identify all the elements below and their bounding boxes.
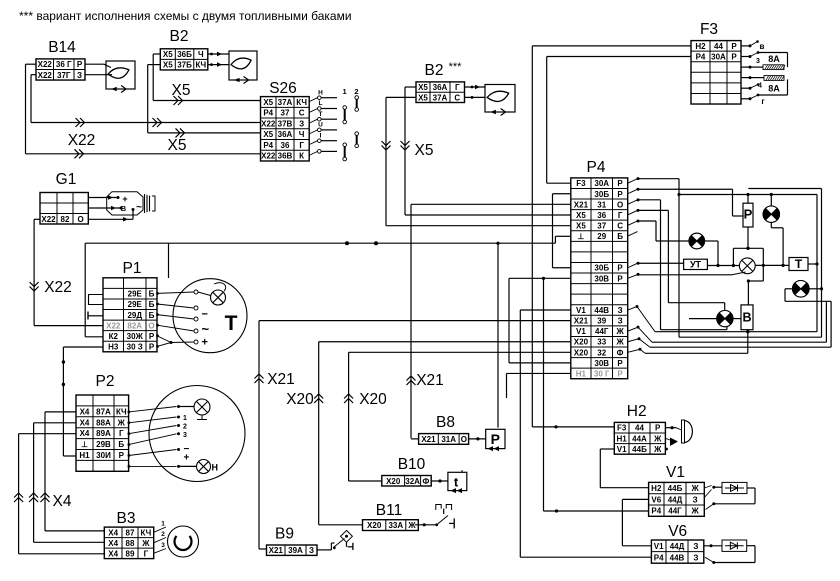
svg-text:30И: 30И [96,451,111,460]
svg-text:31А: 31А [441,435,456,444]
svg-text:44В: 44В [670,553,685,562]
svg-text:В2: В2 [425,62,444,79]
svg-text:30А: 30А [594,179,609,188]
svg-text:Х21: Х21 [421,435,436,444]
svg-text:F3: F3 [700,21,718,38]
svg-text:Р: Р [617,264,623,273]
svg-text:29Д: 29Д [127,311,142,320]
svg-text:1: 1 [161,521,165,528]
svg-text:F3: F3 [617,424,627,433]
svg-text:t: t [454,475,459,490]
svg-text:88: 88 [126,539,135,548]
svg-text:Х5: Х5 [576,221,586,230]
svg-text:Н: Н [212,463,219,473]
svg-text:⊥: ⊥ [577,232,584,241]
svg-text:44Б: 44Б [632,445,647,454]
svg-text:З: З [693,542,698,551]
svg-text:О: О [78,215,84,224]
svg-text:29: 29 [597,232,606,241]
svg-text:В: В [742,311,751,325]
svg-text:44Д: 44Д [670,542,685,551]
svg-text:КЧ: КЧ [195,61,206,70]
svg-text:Р: Р [491,431,500,447]
svg-text:Х21: Х21 [269,546,284,555]
svg-text:Х22: Х22 [38,71,53,80]
svg-text:S26: S26 [269,80,297,97]
svg-text:Х20: Х20 [359,391,387,408]
svg-text:V1: V1 [654,542,664,551]
svg-text:Г: Г [144,549,149,558]
svg-text:3: 3 [161,542,165,549]
svg-text:Р2: Р2 [96,373,115,390]
svg-text:***: *** [449,61,463,73]
svg-text:КЧ: КЧ [140,528,151,537]
svg-text:V1: V1 [576,327,586,336]
svg-text:О: О [148,321,154,330]
svg-text:Р: Р [119,451,125,460]
svg-text:Х22: Х22 [106,321,121,330]
svg-text:Х20: Х20 [574,348,589,357]
svg-text:−: − [202,309,208,321]
svg-text:Б: Б [149,300,155,309]
svg-text:L: L [319,100,323,107]
svg-text:Т: Т [319,111,323,118]
svg-text:36В: 36В [278,152,293,161]
svg-text:Х4: Х4 [80,429,90,438]
svg-text:1: 1 [183,415,187,422]
svg-text:36: 36 [597,211,606,220]
svg-text:Р1: Р1 [123,260,142,277]
svg-text:З: З [618,306,623,315]
svg-text:V6: V6 [668,523,687,540]
svg-text:Р: Р [617,359,623,368]
svg-text:Ф: Ф [617,348,624,357]
svg-text:О: О [461,435,467,444]
svg-text:Х22: Х22 [38,60,53,69]
svg-text:Р4: Р4 [654,553,664,562]
svg-text:F3: F3 [576,179,586,188]
svg-text:С: С [299,109,305,118]
svg-text:Х4: Х4 [108,539,118,548]
svg-text:+: + [184,453,190,464]
svg-text:Т: Т [225,312,238,335]
svg-text:Х21: Х21 [416,372,444,389]
svg-text:Н2: Н2 [651,484,662,493]
svg-text:44Г: 44Г [668,507,682,516]
svg-text:30Б: 30Б [594,190,609,199]
svg-text:V1: V1 [576,306,586,315]
svg-text:88А: 88А [96,418,111,427]
svg-text:Р: Р [731,52,737,61]
svg-text:Б: Б [149,290,155,299]
svg-text:3: 3 [756,58,760,65]
svg-text:Х5: Х5 [163,61,173,70]
svg-text:Ж: Ж [615,338,624,347]
svg-text:Б: Б [118,440,124,449]
svg-text:2: 2 [183,424,187,431]
svg-text:Х22: Х22 [41,215,56,224]
svg-text:Х20: Х20 [574,338,589,347]
svg-text:Р: Р [77,60,83,69]
svg-text:І: І [320,132,322,139]
svg-text:30В: 30В [594,274,609,283]
svg-text:30 З: 30 З [127,343,143,352]
svg-text:44Б: 44Б [668,484,683,493]
svg-text:З: З [309,546,314,555]
svg-text:В2: В2 [170,28,189,45]
svg-text:Х4: Х4 [108,549,118,558]
svg-text:Х4: Х4 [53,493,72,510]
svg-text:⊥: ⊥ [81,440,88,449]
svg-text:Н1: Н1 [576,369,587,378]
svg-text:З: З [299,119,304,128]
svg-text:*** вариант исполнения схемы с: *** вариант исполнения схемы с двумя топ… [19,9,352,23]
svg-text:Р4: Р4 [263,141,273,150]
svg-text:Р: Р [744,207,753,222]
svg-text:30В: 30В [594,359,609,368]
svg-text:44Г: 44Г [595,327,609,336]
svg-text:36Б: 36Б [177,50,192,59]
svg-text:Р: Р [617,274,623,283]
svg-text:Р: Р [617,369,623,378]
svg-text:Х4: Х4 [80,407,90,416]
svg-text:Ж: Ж [117,418,126,427]
svg-text:Х20: Х20 [386,477,401,486]
svg-text:Р4: Р4 [263,109,273,118]
svg-text:87: 87 [126,528,135,537]
svg-text:44: 44 [635,424,644,433]
svg-text:Х5: Х5 [418,93,428,102]
svg-text:В8: В8 [436,414,455,431]
svg-text:Х22: Х22 [44,279,72,296]
svg-text:+: + [122,194,127,204]
svg-text:З: З [618,317,623,326]
svg-text:С: С [617,221,623,230]
svg-text:G1: G1 [56,171,77,188]
svg-text:37: 37 [597,221,606,230]
svg-text:+: + [202,337,208,349]
svg-text:Ч: Ч [299,130,305,139]
svg-text:Б: Б [149,311,155,320]
svg-text:87А: 87А [96,407,111,416]
svg-text:8А: 8А [768,54,780,64]
svg-text:КЧ: КЧ [296,98,307,107]
svg-text:2: 2 [354,87,358,96]
svg-text:U: U [318,122,323,129]
svg-text:Р4: Р4 [587,159,606,176]
svg-text:В10: В10 [398,456,426,473]
svg-text:Н1: Н1 [617,434,628,443]
svg-text:39А: 39А [288,546,303,555]
svg-text:36 Г: 36 Г [56,60,72,69]
svg-text:Н: Н [318,89,323,96]
svg-text:Р4: Р4 [696,52,706,61]
svg-text:З: З [693,495,698,504]
svg-text:В14: В14 [48,39,76,56]
svg-text:89А: 89А [96,429,111,438]
svg-text:КЧ: КЧ [116,407,127,416]
svg-text:Х5: Х5 [172,82,191,99]
svg-text:Х21: Х21 [574,317,589,326]
svg-text:29Е: 29Е [128,300,143,309]
svg-text:29Е: 29Е [128,290,143,299]
svg-text:Х4: Х4 [108,528,118,537]
svg-text:Ж: Ж [691,484,700,493]
svg-text:33: 33 [597,338,606,347]
svg-text:Р: Р [731,42,737,51]
svg-text:Х5: Х5 [418,83,428,92]
svg-text:44Д: 44Д [668,495,683,504]
svg-text:Н2: Н2 [695,42,706,51]
svg-text:В11: В11 [376,502,402,519]
svg-text:Х22: Х22 [261,119,276,128]
svg-text:Ж: Ж [615,327,624,336]
svg-text:37А: 37А [278,98,293,107]
svg-text:Ч: Ч [198,50,204,59]
svg-text:Н1: Н1 [79,451,90,460]
svg-text:Ж: Ж [691,507,700,516]
svg-text:31: 31 [597,200,606,209]
svg-text:44А: 44А [632,434,647,443]
svg-text:Н3: Н3 [108,343,119,352]
svg-text:Р: Р [617,190,623,199]
svg-text:37В: 37В [278,119,293,128]
svg-text:Х5: Х5 [263,130,273,139]
svg-text:36А: 36А [278,130,293,139]
svg-text:V1: V1 [617,445,627,454]
svg-text:3: 3 [183,432,187,439]
svg-text:Ж: Ж [141,539,150,548]
svg-text:Х22: Х22 [68,132,96,149]
svg-text:36: 36 [281,141,290,150]
svg-text:УТ: УТ [690,259,702,269]
svg-text:~: ~ [202,322,210,337]
svg-text:Х4: Х4 [80,418,90,427]
svg-text:Г: Г [455,83,460,92]
svg-text:Р: Р [617,179,623,188]
svg-text:37А: 37А [433,93,448,102]
svg-text:37Г: 37Г [57,71,71,80]
svg-text:Б: Б [617,232,623,241]
svg-text:82А: 82А [127,321,142,330]
svg-text:37Б: 37Б [177,61,192,70]
svg-text:Ж: Ж [653,445,662,454]
svg-text:Р4: Р4 [651,507,661,516]
svg-text:30Ж: 30Ж [127,332,144,341]
svg-text:Ж: Ж [407,521,416,530]
svg-text:Х5: Х5 [163,50,173,59]
svg-text:30А: 30А [711,52,726,61]
svg-text:8А: 8А [768,84,780,94]
svg-text:Х20: Х20 [286,391,314,408]
svg-text:89: 89 [126,549,135,558]
svg-text:В9: В9 [275,526,294,543]
svg-text:Х21: Х21 [574,200,589,209]
svg-text:Х21: Х21 [267,371,295,388]
svg-text:1: 1 [343,87,347,96]
svg-text:32: 32 [597,348,606,357]
svg-text:˙: ˙ [460,470,464,482]
svg-text:Х5: Х5 [168,137,187,154]
svg-text:В3: В3 [117,510,136,527]
svg-text:30Б: 30Б [594,264,609,273]
svg-text:2: 2 [161,531,165,538]
svg-text:Г: Г [299,141,304,150]
svg-text:С: С [454,93,460,102]
svg-text:Х20: Х20 [367,521,382,530]
svg-text:Н2: Н2 [627,403,647,420]
svg-text:Х5: Х5 [415,142,434,159]
svg-text:Р: Р [655,424,661,433]
svg-text:30 Г: 30 Г [594,369,610,378]
svg-text:36А: 36А [433,83,448,92]
svg-text:29В: 29В [96,440,111,449]
svg-text:Р: Р [149,343,155,352]
svg-text:Ф: Ф [422,477,429,486]
svg-text:82: 82 [61,215,70,224]
svg-text:З: З [693,553,698,562]
svg-text:Т: Т [795,257,803,271]
svg-text:Х22: Х22 [261,152,276,161]
svg-text:Х5: Х5 [263,98,273,107]
svg-text:Г: Г [618,211,623,220]
svg-text:Ж: Ж [653,434,662,443]
svg-text:в: в [760,42,765,51]
svg-text:44В: 44В [594,306,609,315]
svg-text:44: 44 [714,42,723,51]
svg-text:Г: Г [119,429,124,438]
svg-text:V1: V1 [666,464,685,481]
svg-text:Х5: Х5 [576,211,586,220]
svg-text:О: О [617,200,623,209]
svg-text:32А: 32А [405,477,420,486]
svg-text:К2: К2 [109,332,119,341]
svg-text:Р: Р [149,332,155,341]
svg-text:37: 37 [281,109,290,118]
svg-text:~: ~ [136,202,142,213]
svg-text:К: К [299,152,304,161]
svg-text:З: З [77,71,82,80]
svg-text:39: 39 [597,317,606,326]
svg-text:V6: V6 [651,495,661,504]
svg-text:33А: 33А [388,521,403,530]
